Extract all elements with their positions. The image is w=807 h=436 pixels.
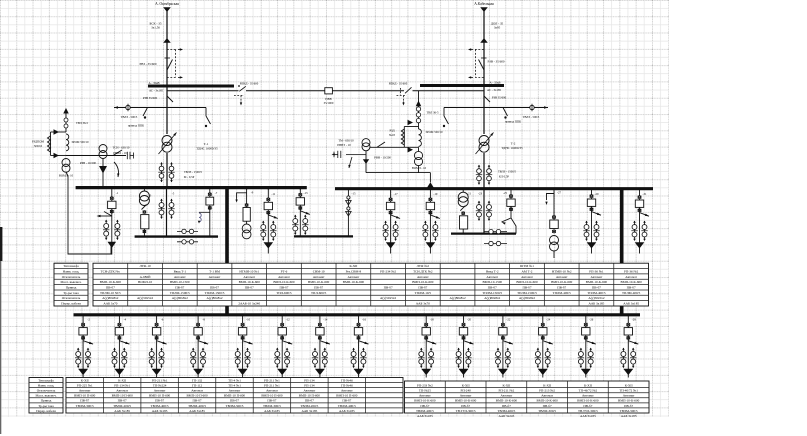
feeder -13: [299, 189, 301, 198]
reactor assembly РЗДПОМ/ЗРОМ (centre): [418, 91, 420, 129]
svg-text:Автомат: Автомат: [154, 389, 166, 393]
wire: 35kV bus tie: [167, 90, 239, 92]
svg-text:Масл. выключ.: Масл. выключ.: [61, 280, 82, 284]
svg-text:РВНТ - 10: РВНТ - 10: [337, 143, 351, 147]
svg-text:ПВ-б7: ПВ-б7: [543, 404, 552, 408]
svg-text:Автомат: Автомат: [79, 389, 91, 393]
svg-text:Привод: Привод: [66, 286, 77, 290]
svg-text:Автомат: Автомат: [460, 394, 472, 398]
svg-text:ГП-№46: ГП-№46: [341, 378, 353, 382]
busbar А-35кВ section 2: [420, 84, 504, 87]
svg-text:-19: -19: [433, 192, 437, 196]
svg-text:Автомат: Автомат: [348, 275, 360, 279]
svg-text:РВН - 10/200: РВН - 10/200: [374, 156, 391, 160]
svg-text:ААБ 3х185: ААБ 3х185: [580, 414, 596, 418]
svg-text:ААБ 3х185: ААБ 3х185: [621, 414, 637, 418]
svg-text:-12: -12: [286, 317, 290, 321]
svg-text:Введ Т-2: Введ Т-2: [486, 269, 499, 273]
svg-text:ТПЛМ-10/5: ТПЛМ-10/5: [415, 291, 432, 295]
svg-text:ПВ-б7: ПВ-б7: [342, 399, 351, 403]
svg-text:ААБ 3х185: ААБ 3х185: [589, 302, 605, 306]
svg-text:РП-134 №1: РП-134 №1: [114, 383, 130, 387]
svg-text:ЛТФ №2: ЛТФ №2: [417, 264, 430, 268]
svg-text:РП-211 №2: РП-211 №2: [498, 389, 514, 393]
svg-text:Автомат: Автомат: [623, 394, 635, 398]
svg-text:ААБ 3х185: ААБ 3х185: [339, 409, 355, 413]
svg-text:ГП-№46: ГП-№46: [341, 383, 353, 387]
svg-text:Автомат: Автомат: [625, 275, 637, 279]
svg-text:РЛНД - 35/600: РЛНД - 35/600: [240, 81, 259, 85]
wire: assembly to TSN link: [66, 155, 126, 157]
svg-text:ВМП-10 П-600: ВМП-10 П-600: [149, 394, 171, 398]
svg-text:привод ППК: привод ППК: [128, 124, 145, 128]
feeder -27 (transformer): [553, 189, 555, 220]
svg-text:-28: -28: [632, 317, 636, 321]
svg-text:А(у)80х8х2: А(у)80х8х2: [172, 296, 188, 300]
svg-text:ВМП-10 П-600: ВМП-10 П-600: [74, 394, 96, 398]
svg-text:ВМП-10-К-600: ВМП-10-К-600: [100, 280, 122, 284]
svg-text:-25: -25: [503, 191, 507, 195]
svg-text:ВМП-10-К-600: ВМП-10-К-600: [586, 280, 608, 284]
svg-text:ПВ-б7: ПВ-б7: [583, 404, 592, 408]
svg-text:ТВЛМ-300/5: ТВЛМ-300/5: [76, 404, 94, 408]
svg-text:РП-211 №1: РП-211 №1: [264, 383, 280, 387]
svg-text:К-ХII: К-ХII: [349, 264, 357, 268]
svg-text:ЛТФ-10: ЛТФ-10: [139, 264, 151, 268]
svg-text:РП-240: РП-240: [460, 389, 471, 393]
svg-text:ВМП-10-К-600: ВМП-10-К-600: [577, 399, 599, 403]
svg-text:Тр-ры тока: Тр-ры тока: [38, 404, 54, 408]
svg-text:ВМП-10-К-600: ВМП-10-К-600: [239, 280, 261, 284]
svg-text:ПВ-б7: ПВ-б7: [461, 404, 470, 408]
feeder -12 (lower): [281, 315, 283, 328]
svg-text:ТМ - 630/10: ТМ - 630/10: [338, 139, 354, 143]
svg-text:Автомат: Автомат: [209, 275, 221, 279]
svg-text:РЛНД - 35/600: РЛНД - 35/600: [389, 81, 408, 85]
svg-text:Автомат: Автомат: [191, 389, 203, 393]
svg-text:-23: -23: [478, 192, 482, 196]
svg-text:ПВ-б7: ПВ-б7: [418, 286, 427, 290]
svg-text:ВМП-10-К-600: ВМП-10-К-600: [516, 280, 538, 284]
svg-text:РЗВ - 10/200: РЗВ - 10/200: [80, 161, 97, 165]
svg-text:РП-233 №2: РП-233 №2: [417, 383, 433, 387]
svg-text:ВМП-10 П-600: ВМП-10 П-600: [112, 394, 134, 398]
svg-text:Автомат: Автомат: [521, 275, 533, 279]
feeder -10 (lower): [242, 315, 244, 328]
wire: T-2 HV lead: [483, 86, 485, 135]
feeder -20 (lower): [463, 315, 465, 328]
svg-text:Введ Т-1: Введ Т-1: [174, 269, 187, 273]
svg-text:Т-1 ВМ: Т-1 ВМ: [209, 269, 220, 273]
busbar 10kV lower section: [74, 313, 641, 316]
svg-text:Автомат: Автомат: [116, 389, 128, 393]
CT pair on sub-bus A (upper): [177, 230, 198, 232]
svg-text:ЗРОМ 500/10: ЗРОМ 500/10: [71, 140, 89, 144]
svg-text:Автомат: Автомат: [556, 275, 568, 279]
feeder -22 (lower): [502, 315, 504, 328]
busbar 10kV section 2: [335, 187, 653, 190]
svg-text:ПВ-б7: ПВ-б7: [624, 404, 633, 408]
svg-text:Т-2: Т-2: [511, 141, 516, 145]
svg-text:ПВ-б7: ПВ-б7: [245, 286, 254, 290]
svg-text:ААБ 3х185: ААБ 3х185: [264, 409, 280, 413]
transformer ВОМЛ (centre): [418, 147, 420, 151]
svg-text:Автомат: Автомат: [591, 275, 603, 279]
svg-text:ТВЛ 36-5: ТВЛ 36-5: [76, 121, 89, 125]
svg-text:ПВ-б7: ПВ-б7: [155, 399, 164, 403]
svg-text:Отключатель: Отключатель: [62, 296, 81, 300]
wire: incoming line 2: [483, 8, 485, 86]
svg-text:№18: №18: [389, 133, 395, 137]
svg-text:Автомат: Автомат: [243, 275, 255, 279]
svg-text:-16: -16: [362, 317, 366, 321]
svg-text:ВМП-10-К-600: ВМП-10-К-600: [496, 399, 518, 403]
wire: incoming overhead line 1: [166, 8, 168, 86]
svg-text:ТПЛ-600/5: ТПЛ-600/5: [311, 291, 327, 295]
svg-text:РП-211 №1: РП-211 №1: [152, 378, 168, 382]
svg-text:А(у)50х5х2: А(у)50х5х2: [588, 296, 604, 300]
riser to lower switchgear (right): [620, 189, 624, 315]
svg-text:ВОМЛ - 10: ВОМЛ - 10: [59, 174, 74, 178]
svg-text:Перер. кабеля: Перер. кабеля: [61, 302, 81, 306]
svg-text:ТВЛМ-400/5: ТВЛМ-400/5: [151, 404, 169, 408]
feeder -31: [639, 189, 641, 200]
svg-text:Тип шкафа: Тип шкафа: [38, 378, 54, 382]
svg-text:ВМП-10-К-600: ВМП-10-К-600: [455, 399, 477, 403]
disconnector (line 1 entry, dashed): [163, 38, 171, 43]
svg-text:ААБ 3х185: ААБ 3х185: [189, 409, 205, 413]
svg-text:А(у)80х8х2: А(у)80х8х2: [484, 296, 500, 300]
svg-text:35/1000: 35/1000: [324, 101, 334, 105]
svg-text:А. Октябрьская: А. Октябрьская: [155, 2, 179, 6]
wire: loop to feeder 1 cable: [66, 172, 111, 254]
svg-text:Автомат: Автомат: [486, 275, 498, 279]
svg-text:-13: -13: [304, 191, 308, 195]
svg-text:А - 35кВ: А - 35кВ: [489, 80, 500, 84]
svg-text:ААБ 3х185: ААБ 3х185: [114, 409, 130, 413]
wire: tie right part: [332, 90, 404, 92]
svg-text:ВМП-10-1500: ВМП-10-1500: [482, 280, 502, 284]
svg-text:К-ХII: К-ХII: [118, 378, 126, 382]
svg-text:АС - 3х185: АС - 3х185: [487, 88, 502, 92]
svg-text:РП-36 №1: РП-36 №1: [589, 269, 604, 273]
svg-text:3х95: 3х95: [494, 26, 501, 30]
svg-text:РЗВ - 35/600: РЗВ - 35/600: [487, 60, 504, 64]
svg-text:ААБ 3х185: ААБ 3х185: [417, 414, 433, 418]
svg-text:ТП-46/72 №2: ТП-46/72 №2: [579, 389, 598, 393]
svg-text:Автомат: Автомат: [419, 394, 431, 398]
svg-text:ВМП-10-К-600: ВМП-10-К-600: [308, 280, 330, 284]
svg-text:ВМП-10-К-600: ВМП-10-К-600: [343, 280, 365, 284]
svg-text:ТСН - 630/10: ТСН - 630/10: [113, 146, 130, 150]
svg-text:ПВ-б7: ПВ-б7: [175, 286, 184, 290]
svg-text:РП-36 №2: РП-36 №2: [624, 269, 639, 273]
svg-text:А.Кабельная: А.Кабельная: [474, 2, 494, 6]
wire: T-1 infeed to sub-bus A: [166, 188, 168, 237]
svg-text:-11: -11: [271, 192, 275, 196]
svg-text:Т-1: Т-1: [204, 142, 209, 146]
svg-text:ВМП-10 П-600: ВМП-10 П-600: [224, 394, 246, 398]
svg-text:-20: -20: [467, 317, 471, 321]
svg-text:ШТМ №1: ШТМ №1: [520, 264, 534, 268]
sub-bus B (bus tie lower): [294, 235, 353, 237]
svg-text:РВЗ - 35/600: РВЗ - 35/600: [139, 62, 156, 66]
transformer T-1 ТДНС 16000/35: [162, 136, 172, 146]
svg-text:ТВЛМ-400/5: ТВЛМ-400/5: [338, 404, 356, 408]
svg-text:ТВ.ТУЛ-300/5: ТВ.ТУЛ-300/5: [456, 409, 476, 413]
disconnector (line 2 entry): [475, 50, 477, 78]
svg-text:ТВЛМ-200/5: ТВЛМ-200/5: [113, 404, 131, 408]
feeder -17: [390, 189, 392, 203]
feeder -28 (lower): [627, 315, 629, 328]
svg-text:ТПЛМ-1500/5: ТПЛМ-1500/5: [205, 291, 225, 295]
svg-text:К-ХII: К-ХII: [543, 383, 551, 387]
svg-text:-22: -22: [506, 317, 510, 321]
CT pair on sub-bus C (upper): [484, 231, 507, 233]
feeder -26 (lower): [585, 315, 587, 328]
svg-text:ТПЛМ-1500/5: ТПЛМ-1500/5: [482, 291, 502, 295]
svg-text:РП-225 №1: РП-225 №1: [77, 383, 93, 387]
transformer ВОМЛ-10: [62, 159, 70, 167]
svg-text:ПВ-б7: ПВ-б7: [230, 399, 239, 403]
transformer T-2 ТДНС 16000/35: [479, 136, 489, 146]
svg-text:ААБ 3х185: ААБ 3х185: [623, 302, 639, 306]
svg-text:-21: -21: [467, 192, 471, 196]
feeder -6 (lower): [156, 315, 158, 328]
svg-text:ТВЛЗ - 500/5: ТВЛЗ - 500/5: [523, 115, 540, 119]
svg-text:К-ХII: К-ХII: [502, 383, 510, 387]
feeder -14 (lower): [319, 315, 321, 328]
svg-text:-10: -10: [246, 317, 250, 321]
svg-text:ВМП-10-К-600: ВМП-10-К-600: [621, 280, 643, 284]
svg-text:ТВ.ТУЛ-300/5: ТВ.ТУЛ-300/5: [578, 409, 598, 413]
transformer ТСН-630/10: [99, 145, 107, 153]
feeder -25: [510, 189, 512, 199]
svg-text:РП-134: РП-134: [304, 378, 315, 382]
wire: right bypass branch: [444, 107, 548, 109]
busbar 10kV section 1: [76, 186, 307, 189]
svg-text:ВМП-10 П-600: ВМП-10 П-600: [186, 394, 208, 398]
svg-text:А(у)80х8х2: А(у)80х8х2: [449, 296, 465, 300]
svg-text:Автомат: Автомат: [341, 389, 353, 393]
svg-text:ТПЛМ-400/5: ТПЛМ-400/5: [587, 291, 606, 295]
sub-bus C: [451, 233, 516, 235]
svg-text:РТ-6: РТ-6: [281, 269, 288, 273]
svg-text:Отключатель: Отключатель: [37, 389, 56, 393]
svg-text:ПВ-б7: ПВ-б7: [193, 399, 202, 403]
feeder -8 (lower): [197, 315, 199, 328]
svg-text:ПВ-б7: ПВ-б7: [488, 286, 497, 290]
svg-text:-15: -15: [352, 192, 356, 196]
CT pair on sub-bus A (lower): [177, 241, 198, 243]
svg-text:РВНЛ - 10: РВНЛ - 10: [113, 151, 127, 155]
svg-text:ТВЛМ-300/5: ТВЛМ-300/5: [226, 404, 244, 408]
svg-text:ЗРОМ 500/10: ЗРОМ 500/10: [425, 130, 443, 134]
svg-text:ВМП-10-1500: ВМП-10-1500: [170, 280, 190, 284]
svg-text:ААБ 3х245: ААБ 3х245: [499, 414, 515, 418]
sub-bus A: [135, 235, 218, 237]
svg-text:АМ Т-2: АМ Т-2: [522, 269, 533, 273]
svg-text:Автомат: Автомат: [501, 394, 513, 398]
svg-text:Автомат: Автомат: [541, 394, 553, 398]
svg-text:ТДНС 16000/35: ТДНС 16000/35: [501, 146, 523, 150]
svg-text:ВМП-10 П-600: ВМП-10 П-600: [299, 394, 321, 398]
svg-text:Автомат: Автомат: [229, 389, 241, 393]
feeder -21 (VT): [462, 189, 464, 193]
svg-text:ПВ-б7: ПВ-б7: [592, 286, 601, 290]
svg-text:ПВ-б7: ПВ-б7: [118, 399, 127, 403]
svg-text:ПВ-б7: ПВ-б7: [557, 286, 566, 290]
svg-text:Автомат: Автомат: [278, 275, 290, 279]
svg-text:-29: -29: [595, 192, 599, 196]
svg-text:ТВЛМ-400/5: ТВЛМ-400/5: [416, 409, 434, 413]
capacitor (centre): [346, 153, 366, 155]
svg-text:ТПЛМ-400/5: ТПЛМ-400/5: [622, 291, 641, 295]
svg-text:ТПЛ-600/5: ТПЛ-600/5: [276, 291, 292, 295]
svg-text:ТВЛМ-300/5: ТВЛМ-300/5: [538, 409, 556, 413]
svg-text:НТМИ-10 №2: НТМИ-10 №2: [552, 269, 572, 273]
svg-text:СВМ-10: СВМ-10: [313, 269, 325, 273]
svg-text:АС - 3х185: АС - 3х185: [149, 89, 164, 93]
svg-text:ТВЛЗ - 1500/5: ТВЛЗ - 1500/5: [184, 170, 203, 174]
svg-text:Масл. выключ.: Масл. выключ.: [36, 394, 57, 398]
svg-text:Наим. соед.: Наим. соед.: [63, 269, 80, 273]
svg-text:Автомат: Автомат: [582, 394, 594, 398]
svg-text:К-ХII: К-ХII: [625, 383, 633, 387]
svg-text:РЗВ 35/600: РЗВ 35/600: [492, 96, 507, 100]
svg-text:Тр-ры тока: Тр-ры тока: [63, 291, 79, 295]
svg-text:ТСН-ДТК №с: ТСН-ДТК №с: [101, 269, 121, 273]
svg-text:ТВЛМ-400/5: ТВЛМ-400/5: [188, 404, 206, 408]
svg-text:ААБ 3х70: ААБ 3х70: [103, 302, 117, 306]
svg-text:-26: -26: [589, 317, 593, 321]
feeder -19: [429, 189, 431, 203]
svg-text:ПВ-б7: ПВ-б7: [384, 286, 393, 290]
disconnector ПВВ 35/1000: [325, 88, 333, 94]
svg-text:К-ХII: К-ХII: [584, 383, 592, 387]
svg-text:Привод: Привод: [41, 399, 52, 403]
svg-text:ВОМЛ-10: ВОМЛ-10: [138, 280, 152, 284]
svg-text:Автомат: Автомат: [313, 275, 325, 279]
svg-text:А(у)50х5х2: А(у)50х5х2: [137, 296, 153, 300]
feeder -4 (lower): [118, 315, 120, 328]
svg-text:ТП-№25: ТП-№25: [419, 389, 431, 393]
svg-text:А(у)80х8х2: А(у)80х8х2: [206, 296, 222, 300]
svg-text:ВМП-10-К-600: ВМП-10-К-600: [618, 399, 640, 403]
svg-text:ТПЛМ-10 50/5: ТПЛМ-10 50/5: [100, 291, 121, 295]
svg-text:Тип шкафа: Тип шкафа: [63, 264, 79, 268]
svg-text:Перер. кабеля: Перер. кабеля: [36, 409, 56, 413]
svg-text:ПВ-б7: ПВ-б7: [106, 286, 115, 290]
svg-text:-14: -14: [323, 317, 327, 321]
feeder -9 (transformer): [246, 189, 248, 208]
svg-text:ВМП-10-К-600: ВМП-10-К-600: [414, 399, 436, 403]
svg-text:ТВЛМ-200/5: ТВЛМ-200/5: [300, 404, 318, 408]
svg-text:ТВЛЗ - 1500/5: ТВЛЗ - 1500/5: [498, 170, 517, 174]
CT ТВЛЗ-1500/5 on T-2 lead: [478, 165, 480, 184]
svg-text:ТП-40/72 №1: ТП-40/72 №1: [619, 389, 638, 393]
svg-text:Рез.СВМ-8: Рез.СВМ-8: [346, 269, 362, 273]
svg-text:РП-211 №1: РП-211 №1: [264, 378, 280, 382]
svg-text:ААБ 3х70: ААБ 3х70: [416, 302, 430, 306]
svg-text:ТВЛМ-300/5: ТВЛМ-300/5: [263, 404, 281, 408]
svg-text:ПВ-б7: ПВ-б7: [627, 286, 636, 290]
wire: bypass branch with CT ТВЛЗ-500/5: [114, 107, 206, 109]
svg-text:-24: -24: [546, 317, 550, 321]
svg-text:ПВ-б7: ПВ-б7: [502, 404, 511, 408]
svg-text:ПВ-б7: ПВ-б7: [420, 404, 429, 408]
wire: T-2 LV lead: [483, 153, 485, 189]
svg-text:К-ХII: К-ХII: [462, 383, 470, 387]
svg-text:ВМП-10-К-600: ВМП-10-К-600: [412, 280, 434, 284]
svg-text:ТВЛ 36-5: ТВЛ 36-5: [426, 111, 439, 115]
svg-text:К-ХII: К-ХII: [81, 378, 89, 382]
svg-text:НТМИ-10 №1: НТМИ-10 №1: [239, 269, 259, 273]
feeder -7: [209, 188, 211, 198]
svg-text:Автомат: Автомат: [266, 389, 278, 393]
feeder -16 (lower): [358, 315, 360, 328]
svg-text:Отключатель: Отключатель: [62, 275, 81, 279]
wire: T-1 LV lead: [166, 153, 168, 188]
svg-text:ТП-№224: ТП-№224: [153, 383, 167, 387]
capacitor: [126, 152, 128, 159]
busbar А-35кВ section 1: [148, 84, 234, 87]
svg-text:ГП-112: ГП-112: [192, 383, 203, 387]
sheet left border: [0, 227, 2, 261]
svg-text:ПВ-б7: ПВ-б7: [522, 286, 531, 290]
svg-text:А-686Й: А-686Й: [140, 274, 151, 279]
svg-text:ВМП-10-К-600: ВМП-10-К-600: [273, 280, 295, 284]
svg-text:ТСН ДТК №2: ТСН ДТК №2: [413, 269, 433, 273]
svg-text:ВМП-10 П-600: ВМП-10 П-600: [261, 394, 283, 398]
svg-text:-31: -31: [643, 192, 647, 196]
CT ТВЛЗ-1500/5 on T-1 lead: [161, 163, 163, 182]
svg-text:ТП-4 №1: ТП-4 №1: [228, 378, 241, 382]
svg-text:ПВ-б7: ПВ-б7: [210, 286, 219, 290]
svg-text:РП-134: РП-134: [304, 383, 315, 387]
svg-text:ТПЛМ-1500/5: ТПЛМ-1500/5: [517, 291, 537, 295]
svg-text:ТПЛМ-1500/5: ТПЛМ-1500/5: [170, 291, 190, 295]
feeder -1: [111, 188, 113, 202]
svg-text:Автомат: Автомат: [304, 389, 316, 393]
table: upper switchgear list: [54, 263, 649, 306]
svg-text:А(у)50х5х2: А(у)50х5х2: [380, 296, 396, 300]
feeder -11: [267, 189, 269, 203]
svg-text:2ААБ-10 3х240: 2ААБ-10 3х240: [238, 302, 260, 306]
side reactor branch of feeder -7: [199, 211, 210, 213]
junction dots on busbars: [110, 187, 112, 189]
feeder -15 (disconnector): [347, 189, 349, 237]
feeder -3 (VT): [143, 188, 145, 191]
wire: centre assembly to bus 2: [418, 166, 420, 173]
table: lower switchgear list: [29, 378, 649, 418]
svg-text:ПВ-б7: ПВ-б7: [279, 286, 288, 290]
svg-text:ТВЛЗ - 500/5: ТВЛЗ - 500/5: [121, 115, 138, 119]
svg-text:ВОМЛ - 10: ВОМЛ - 10: [412, 166, 427, 170]
svg-text:ПВ-б7: ПВ-б7: [314, 286, 323, 290]
riser to lower switchgear (left): [225, 188, 229, 315]
svg-text:ВМП-10-К-600: ВМП-10-К-600: [551, 280, 573, 284]
svg-text:Автомат: Автомат: [174, 275, 186, 279]
svg-text:ТПЛМ-400/5: ТПЛМ-400/5: [553, 291, 572, 295]
svg-text:ПВ-б7: ПВ-б7: [80, 399, 89, 403]
svg-text:ПВ-б7: ПВ-б7: [267, 399, 276, 403]
svg-text:-27: -27: [557, 191, 561, 195]
svg-text:ВМП-10-К-600: ВМП-10-К-600: [537, 399, 559, 403]
svg-text:ТП-4 №1: ТП-4 №1: [228, 383, 241, 387]
feeder -24 (lower): [542, 315, 544, 328]
CT pair on sub-bus C (lower): [484, 243, 507, 245]
